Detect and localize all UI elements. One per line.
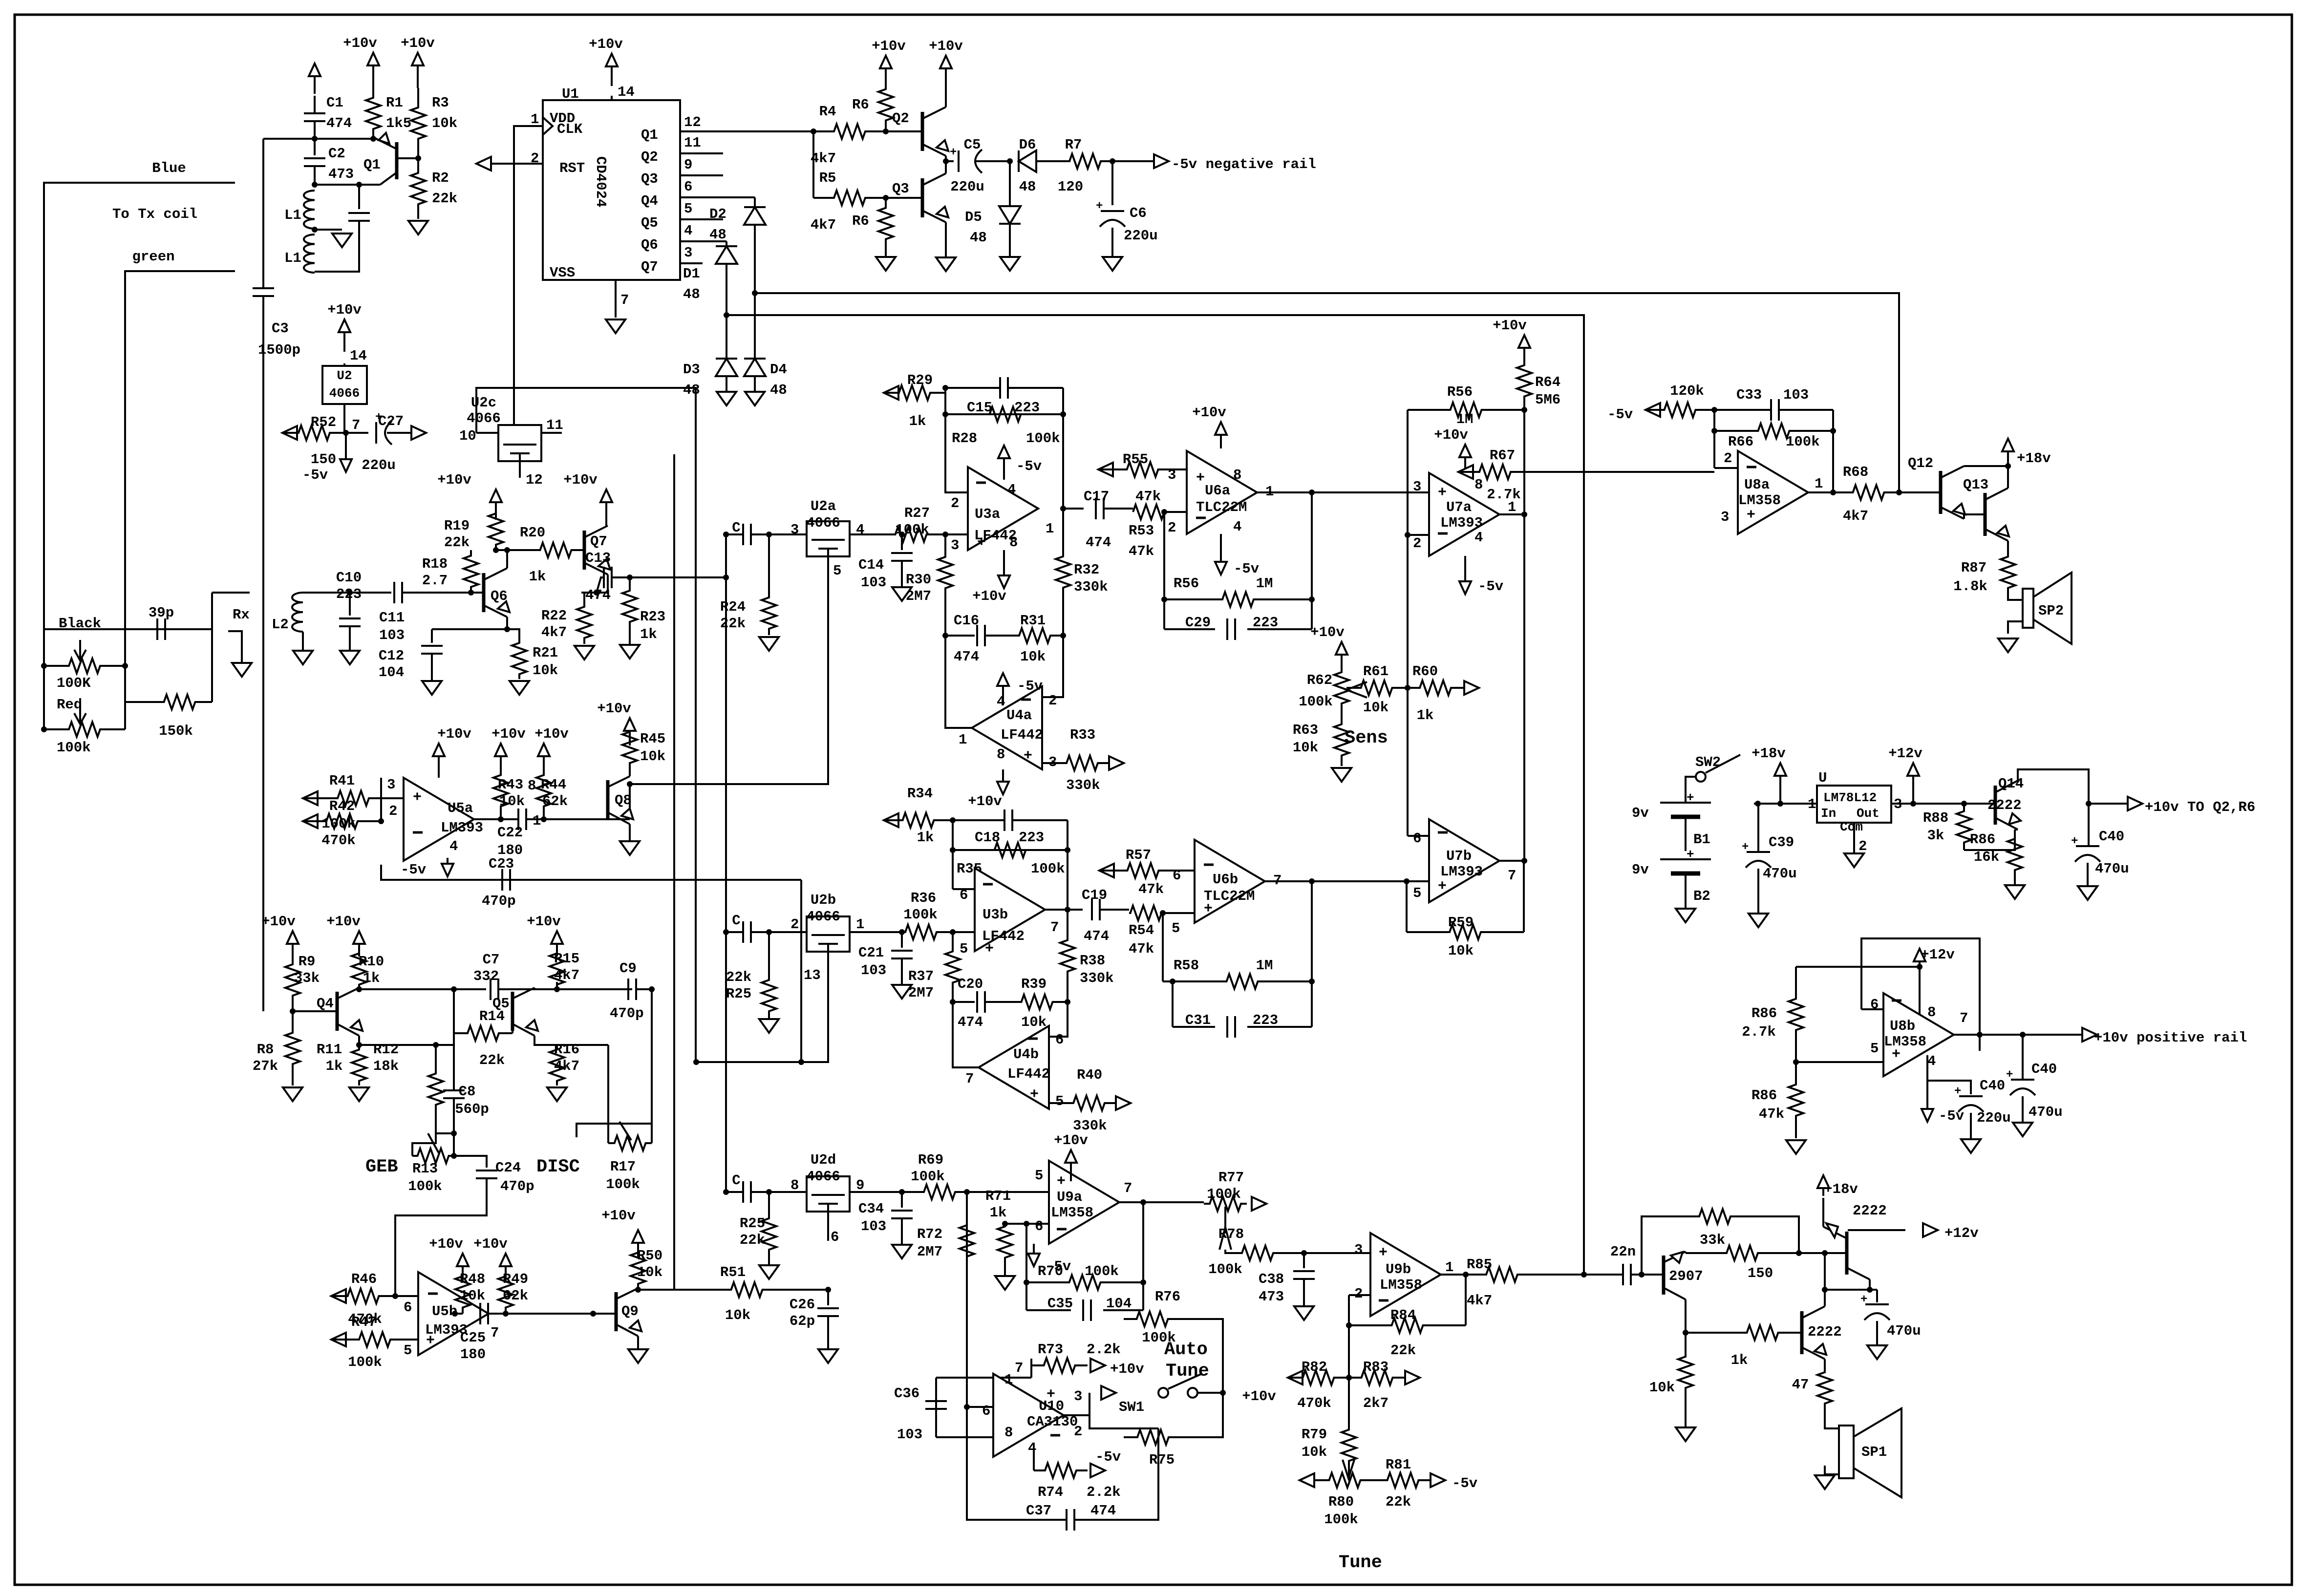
ground C38 xyxy=(1294,1306,1314,1320)
svg-text:+10v: +10v xyxy=(1242,1388,1276,1404)
resistor R83 xyxy=(1349,1370,1405,1385)
svg-text:474: 474 xyxy=(1086,534,1111,551)
junction xyxy=(883,128,889,134)
resistor R21 xyxy=(512,638,527,679)
op-amp U8b xyxy=(1883,993,1954,1076)
svg-text:+: + xyxy=(1892,1046,1901,1063)
wire 470u to gnd xyxy=(1876,1321,1878,1344)
junction xyxy=(41,726,47,732)
transistor Q3 xyxy=(922,173,948,222)
svg-text:+10v: +10v xyxy=(1493,318,1527,334)
resistor R38 xyxy=(1060,910,1075,1002)
wire 33k loop right xyxy=(1739,1216,1799,1253)
wire Q7 collector xyxy=(605,512,607,526)
wire to R21 xyxy=(507,629,519,638)
wire U2b pin13 control xyxy=(696,952,828,1062)
svg-text:U9a: U9a xyxy=(1057,1189,1082,1205)
wire R76 to SW1 xyxy=(1181,1319,1223,1391)
svg-text:470k: 470k xyxy=(1297,1395,1331,1411)
svg-text:U2: U2 xyxy=(337,368,352,383)
wire com lead xyxy=(1853,839,1855,852)
svg-text:6: 6 xyxy=(684,179,692,195)
wire Q15 emitter xyxy=(1869,1279,1871,1290)
svg-text:+: + xyxy=(426,1333,435,1349)
wire C29 row right xyxy=(1247,628,1312,630)
wire C36 box bottom xyxy=(936,1436,993,1438)
wire C5 out xyxy=(975,160,1010,162)
capacitor C8 xyxy=(443,1090,465,1098)
wire C19 to R54 xyxy=(1100,909,1129,911)
svg-text:10k: 10k xyxy=(499,793,525,809)
junction xyxy=(1309,878,1315,884)
svg-text:22k: 22k xyxy=(740,1232,765,1248)
svg-text:C38: C38 xyxy=(1259,1271,1284,1287)
junction xyxy=(1917,964,1922,970)
IC U2 4066 xyxy=(322,366,367,404)
svg-text:474: 474 xyxy=(1084,928,1109,944)
svg-text:474: 474 xyxy=(1090,1503,1116,1519)
svg-text:U: U xyxy=(1818,770,1827,786)
svg-text:LM393: LM393 xyxy=(1440,864,1483,880)
svg-text:SP1: SP1 xyxy=(1861,1444,1887,1460)
resistor R48 xyxy=(455,1270,470,1314)
wire to U5b pin6 xyxy=(395,1295,418,1297)
junction xyxy=(825,1287,831,1293)
wire R4-R5 tie xyxy=(812,131,814,198)
wire outputs tie vert xyxy=(1523,410,1525,861)
wire R78 to U9b xyxy=(1290,1252,1370,1254)
svg-text:100k: 100k xyxy=(1208,1261,1242,1277)
op-amp U9a xyxy=(1049,1161,1119,1244)
resistor R56 (threshold) xyxy=(1408,403,1524,417)
svg-text:220u: 220u xyxy=(362,457,396,473)
open arrow U10 out xyxy=(1101,1386,1116,1400)
svg-text:+: + xyxy=(1196,470,1205,487)
transistor Q1 xyxy=(375,133,418,185)
svg-text:LF442: LF442 xyxy=(1007,1066,1050,1082)
svg-text:-5v: -5v xyxy=(401,862,426,878)
svg-text:+: + xyxy=(2071,835,2078,848)
svg-text:R50: R50 xyxy=(637,1248,662,1264)
wire to C12 xyxy=(432,628,507,630)
svg-text:U2c: U2c xyxy=(471,395,496,411)
wire R12 row xyxy=(359,1044,436,1046)
wire Q14 collector loop xyxy=(2018,769,2089,804)
svg-text:10k: 10k xyxy=(1020,649,1046,665)
resistor R45 xyxy=(622,732,637,763)
resistor R35 xyxy=(972,843,1048,857)
svg-text:D3: D3 xyxy=(683,362,700,378)
svg-text:2: 2 xyxy=(1413,535,1421,552)
wire C cap in xyxy=(726,533,743,535)
op-amp U3b xyxy=(975,868,1045,951)
svg-text:5: 5 xyxy=(1413,885,1421,901)
resistor R34 xyxy=(884,813,953,828)
wire R4 to Q2 base xyxy=(886,130,922,132)
svg-text:470u: 470u xyxy=(2029,1104,2063,1120)
junction xyxy=(723,575,729,580)
wire Q2 collector xyxy=(945,78,947,107)
resistor R4 xyxy=(813,124,886,139)
svg-text:3: 3 xyxy=(790,522,799,538)
svg-text:1.8k: 1.8k xyxy=(1953,578,1987,595)
svg-text:2222: 2222 xyxy=(1808,1324,1842,1340)
svg-text:R28: R28 xyxy=(952,430,977,447)
ground C12 xyxy=(422,681,442,695)
switch SW1 contact a xyxy=(1158,1388,1168,1398)
svg-text:Out: Out xyxy=(1857,806,1880,821)
wire R35 row xyxy=(953,849,1068,851)
svg-text:R41: R41 xyxy=(329,773,355,789)
junction xyxy=(554,986,560,992)
wire C cap to U2b xyxy=(751,931,807,933)
junction xyxy=(950,999,956,1005)
resistor R11 xyxy=(352,1045,366,1085)
ground D4 xyxy=(745,392,765,405)
junction xyxy=(356,1042,362,1048)
svg-text:10k: 10k xyxy=(725,1307,750,1323)
capacitor C35 xyxy=(1083,1299,1091,1321)
wire C8 to R13 out xyxy=(453,1133,455,1156)
svg-text:LM358: LM358 xyxy=(1051,1205,1093,1221)
wire R36 to pin5 xyxy=(953,931,975,933)
junction xyxy=(964,1189,970,1195)
svg-text:C8: C8 xyxy=(459,1084,476,1100)
svg-text:Q1: Q1 xyxy=(641,127,658,143)
svg-text:+10v: +10v xyxy=(872,38,906,54)
capacitor C18 xyxy=(1004,809,1012,831)
svg-text:R38: R38 xyxy=(1080,953,1105,969)
wire C16 to R31 xyxy=(985,635,1006,637)
resistor 120k xyxy=(1645,403,1714,417)
svg-text:104: 104 xyxy=(379,664,404,681)
wire C9 to R17 xyxy=(577,989,652,1137)
svg-text:R17: R17 xyxy=(610,1159,636,1175)
svg-text:+10v: +10v xyxy=(527,914,561,930)
wire U9b out xyxy=(1441,1274,1474,1276)
svg-text:1k: 1k xyxy=(1417,707,1434,724)
wire Black lead xyxy=(44,628,212,630)
svg-text:R58: R58 xyxy=(1174,958,1199,974)
svg-text:Q5: Q5 xyxy=(641,215,658,231)
resistor R1 xyxy=(366,88,381,139)
wire pin2 row xyxy=(1089,1415,1158,1428)
wire to C20 xyxy=(953,1001,975,1003)
resistor R23 xyxy=(622,577,637,635)
wire U6b fb right vert xyxy=(1311,881,1313,1027)
resistor R64 xyxy=(1517,352,1532,410)
power +18v Q12Q13 xyxy=(2002,439,2014,466)
capacitor C xyxy=(743,524,751,545)
power +10v U3a xyxy=(998,550,1010,588)
junction xyxy=(1777,801,1783,807)
wire to Q9 base xyxy=(506,1313,616,1315)
resistor R32 xyxy=(1056,509,1070,636)
power +10v R1 xyxy=(367,53,379,88)
svg-text:Q3: Q3 xyxy=(641,171,658,187)
svg-text:SW1: SW1 xyxy=(1119,1399,1144,1415)
wire +18v stem xyxy=(1779,786,1781,804)
junction xyxy=(1024,1279,1029,1285)
ground R63 xyxy=(1332,768,1351,782)
junction xyxy=(1309,489,1315,495)
svg-text:7: 7 xyxy=(965,1071,974,1087)
junction xyxy=(290,1008,296,1014)
wire battery to SW2 xyxy=(1686,777,1695,803)
svg-text:C5: C5 xyxy=(964,137,981,153)
capacitor C14 xyxy=(891,553,913,561)
wire noop4 xyxy=(673,1289,675,1291)
svg-text:+: + xyxy=(1860,1293,1867,1306)
wire to D4 xyxy=(754,293,756,359)
svg-text:R30: R30 xyxy=(906,572,931,588)
wire Rx stub xyxy=(212,592,250,594)
svg-text:473: 473 xyxy=(328,166,354,182)
wire C15 top left xyxy=(945,387,1000,389)
wire to R82 node xyxy=(1348,1325,1350,1378)
svg-text:+12v: +12v xyxy=(1944,1225,1979,1241)
svg-text:5: 5 xyxy=(1055,1093,1064,1109)
resistor R44 xyxy=(536,762,551,819)
svg-text:R12: R12 xyxy=(373,1042,399,1058)
wire riser to Rx xyxy=(211,593,213,702)
capacitor C9 xyxy=(628,979,636,1000)
wire R42 vert xyxy=(380,778,382,821)
svg-text:R85: R85 xyxy=(1467,1256,1492,1273)
junction xyxy=(723,532,729,537)
wire to U10 pin6 xyxy=(967,1406,993,1408)
junction xyxy=(899,1189,905,1195)
resistor R33 xyxy=(1055,756,1109,770)
potentiometer R62 xyxy=(1334,662,1349,714)
svg-text:In: In xyxy=(1821,806,1836,821)
svg-text:48: 48 xyxy=(683,382,700,398)
resistor R39 xyxy=(1006,995,1068,1009)
wire R85 out xyxy=(1529,1274,1607,1276)
power +10v U6a xyxy=(1215,422,1227,448)
svg-text:Q4: Q4 xyxy=(317,996,334,1012)
svg-text:R82: R82 xyxy=(1302,1359,1327,1375)
open arrow R47 xyxy=(331,1333,346,1346)
svg-text:U3a: U3a xyxy=(975,506,1000,522)
wire R14 to Q5 base xyxy=(512,1011,513,1033)
svg-text:103: 103 xyxy=(861,962,886,979)
wire U2c pin 12 xyxy=(519,461,521,478)
capacitor C34 xyxy=(891,1211,913,1218)
junction xyxy=(1065,847,1070,853)
open arrow R42 xyxy=(303,814,318,828)
svg-text:Q4: Q4 xyxy=(641,193,658,209)
svg-text:103: 103 xyxy=(1783,387,1809,403)
ground VSS xyxy=(606,319,625,333)
open arrow R55 xyxy=(1098,463,1113,476)
junction U3a output xyxy=(1060,506,1066,511)
svg-text:27k: 27k xyxy=(253,1058,278,1074)
wire +10v out xyxy=(2089,803,2128,805)
svg-text:3: 3 xyxy=(387,777,395,793)
diode D2 xyxy=(744,207,766,225)
svg-text:R42: R42 xyxy=(329,798,355,814)
svg-text:R21: R21 xyxy=(533,645,558,661)
svg-text:330k: 330k xyxy=(1080,970,1114,986)
svg-text:103: 103 xyxy=(897,1426,922,1443)
wire noop3 xyxy=(578,818,580,820)
resistor R31 xyxy=(1006,628,1063,643)
resistor R36 xyxy=(889,925,953,939)
capacitor C12 xyxy=(421,646,443,654)
wire C23 row xyxy=(381,865,801,880)
resistor R28 xyxy=(970,407,1041,422)
capacitor C20 xyxy=(977,991,985,1013)
capacitor C25 xyxy=(480,1303,488,1324)
wire to C14 xyxy=(901,534,903,550)
wire fb right vert b xyxy=(1067,820,1068,910)
wire to SP1 xyxy=(1825,1411,1839,1428)
svg-text:100k: 100k xyxy=(1085,1263,1119,1279)
wire C40a to gnd xyxy=(2087,863,2089,885)
wire R84 right vert xyxy=(1465,1275,1467,1325)
wire threshold vert upper xyxy=(1407,410,1409,535)
svg-text:7: 7 xyxy=(1050,919,1059,936)
resistor R15 xyxy=(550,949,564,989)
wire Q13 collector xyxy=(2007,466,2009,488)
svg-text:9v: 9v xyxy=(1632,862,1649,878)
power +10v R48 xyxy=(457,1254,469,1281)
capacitor 39p xyxy=(157,618,165,640)
resistor R60 xyxy=(1407,681,1464,695)
svg-text:CLK: CLK xyxy=(557,121,583,137)
svg-text:100k: 100k xyxy=(1324,1511,1358,1528)
svg-text:5: 5 xyxy=(1172,920,1180,936)
svg-text:6: 6 xyxy=(982,1403,990,1419)
open arrow +10v out xyxy=(2128,797,2142,810)
ground R23 xyxy=(620,645,640,659)
resistor R14 xyxy=(454,1026,513,1041)
svg-text:Q9: Q9 xyxy=(621,1303,639,1319)
svg-text:C33: C33 xyxy=(1736,387,1762,403)
wire Q13 emitter xyxy=(2007,541,2009,554)
svg-text:U9b: U9b xyxy=(1386,1261,1411,1277)
svg-text:Tune: Tune xyxy=(1166,1361,1209,1382)
svg-text:1: 1 xyxy=(1808,796,1816,812)
wire L1 tap xyxy=(315,229,342,231)
resistor R6b xyxy=(878,198,893,249)
svg-text:R11: R11 xyxy=(317,1042,342,1058)
resistor 33k xyxy=(1690,1209,1739,1224)
wire U8a out xyxy=(1808,491,1838,493)
svg-text:R63: R63 xyxy=(1293,722,1318,738)
resistor R52 xyxy=(282,426,346,440)
svg-text:48: 48 xyxy=(709,227,726,243)
svg-text:R33: R33 xyxy=(1070,727,1095,743)
svg-text:C3: C3 xyxy=(272,320,289,337)
svg-text:R8: R8 xyxy=(257,1042,274,1058)
junction xyxy=(1896,489,1902,495)
resistor R51 xyxy=(726,1282,767,1297)
wire 10k to gnd xyxy=(1685,1412,1687,1426)
svg-text:6: 6 xyxy=(1413,830,1421,847)
capacitor C33 xyxy=(1771,399,1779,421)
wire to C21 xyxy=(901,932,903,948)
svg-text:8: 8 xyxy=(1233,467,1241,483)
junction xyxy=(899,532,905,537)
wire C40b to gnd xyxy=(1970,1113,1972,1138)
resistor R8 xyxy=(285,1011,300,1085)
wire C3 to Q4 base xyxy=(262,296,264,1011)
junction xyxy=(1404,878,1410,884)
wire R67 to pin2 xyxy=(1532,471,1714,473)
op-amp U10 xyxy=(993,1374,1064,1457)
junction xyxy=(766,929,772,935)
resistor R74 xyxy=(1034,1463,1088,1478)
op-amp U7a xyxy=(1429,473,1499,556)
junction xyxy=(504,626,510,632)
wire C23 down right xyxy=(800,880,802,1062)
svg-text:4k7: 4k7 xyxy=(554,967,579,983)
resistor 47 xyxy=(1817,1365,1832,1411)
junction xyxy=(370,136,376,142)
svg-text:4: 4 xyxy=(1028,1440,1036,1456)
resistor R37 xyxy=(945,932,960,1002)
op-amp U7b xyxy=(1429,819,1499,902)
resistor R73 xyxy=(1031,1358,1088,1373)
svg-text:4k7: 4k7 xyxy=(541,624,567,640)
wire U2d pin6 stub xyxy=(827,1212,829,1241)
junction xyxy=(452,1311,458,1317)
wire R28 row xyxy=(945,413,1063,415)
svg-text:-5v: -5v xyxy=(1452,1475,1477,1491)
wire r57 stub xyxy=(1187,870,1195,872)
svg-text:+10v: +10v xyxy=(437,472,471,488)
junction xyxy=(649,986,655,992)
wire e stub xyxy=(2015,829,2018,830)
svg-text:R45: R45 xyxy=(640,731,665,747)
wire C8 down xyxy=(453,1098,455,1133)
svg-text:C6: C6 xyxy=(1130,205,1147,221)
svg-text:R40: R40 xyxy=(1077,1067,1102,1083)
resistor R68 xyxy=(1838,485,1899,500)
svg-text:U6a: U6a xyxy=(1205,483,1230,499)
open arrow 120k xyxy=(1645,403,1660,417)
svg-text:R18: R18 xyxy=(422,556,448,572)
svg-text:1k: 1k xyxy=(1731,1352,1748,1368)
svg-text:R1: R1 xyxy=(386,95,403,111)
junction xyxy=(627,575,633,580)
svg-text:+10v: +10v xyxy=(534,726,569,742)
svg-text:To Tx coil: To Tx coil xyxy=(112,206,197,222)
ground C6 xyxy=(1103,257,1122,271)
op-amp U6b xyxy=(1195,840,1265,923)
wire R46 up (from C24) xyxy=(394,1215,396,1296)
wire to Q8 xyxy=(629,784,631,819)
svg-text:U6b: U6b xyxy=(1213,872,1238,888)
svg-text:R9: R9 xyxy=(299,954,316,970)
wire R86b row xyxy=(1796,966,1920,968)
op-amp U6a xyxy=(1187,451,1257,534)
svg-text:7: 7 xyxy=(1508,868,1516,884)
resistor R25d xyxy=(762,1216,776,1252)
wire Q4 pin to rail A xyxy=(754,197,756,293)
svg-text:1: 1 xyxy=(1046,521,1054,537)
resistor R66 xyxy=(1714,424,1833,438)
svg-text:332: 332 xyxy=(473,968,499,984)
capacitor C24 xyxy=(476,1170,497,1178)
svg-text:U7a: U7a xyxy=(1446,499,1472,515)
svg-text:+: + xyxy=(1047,1386,1055,1403)
wire pin2 stub xyxy=(1349,1294,1370,1296)
wire to U4b output xyxy=(953,1002,979,1067)
svg-text:1k: 1k xyxy=(917,830,934,846)
